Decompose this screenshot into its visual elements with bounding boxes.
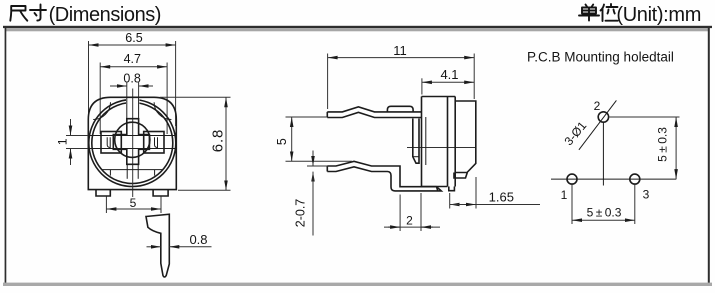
- hub circle: [115, 122, 150, 157]
- dim 6.8 ext lines: [160, 96, 231, 98]
- dim 4.1 ext line: [421, 78, 423, 94]
- right foot: [153, 190, 168, 196]
- dim right line: [675, 117, 677, 179]
- top leg: [327, 107, 421, 118]
- dim 2-0.7 ext lines: [307, 165, 328, 167]
- right wing: [144, 132, 164, 154]
- top leg tab: [387, 106, 413, 112]
- svg-text:3: 3: [643, 188, 650, 202]
- dim 2-0.7 line: [312, 172, 314, 236]
- hole 1: [567, 174, 577, 184]
- dim 5 left ext lines: [286, 116, 328, 118]
- dim 2 ext lines: [399, 195, 401, 232]
- bottom chord tick left: [109, 170, 111, 176]
- center line: [132, 98, 134, 197]
- dim 1.65 ext lines: [449, 193, 451, 209]
- svg-text:5 ± 0.3: 5 ± 0.3: [656, 127, 670, 162]
- rear peg: [449, 187, 455, 191]
- svg-text:2: 2: [406, 214, 413, 228]
- bottom leg: [327, 161, 441, 191]
- dim 1.65 line: [450, 204, 540, 206]
- glyph cun (寸): [30, 5, 46, 21]
- svg-text:6.8: 6.8: [210, 129, 227, 153]
- dim 6.5 line: [89, 44, 176, 46]
- dim 2 arrows: [388, 226, 400, 228]
- neck mask: [126, 98, 139, 119]
- dim 4.7 line: [100, 66, 167, 68]
- dim bottom ext lines: [571, 185, 573, 225]
- inner corner arc right: [154, 102, 171, 119]
- glyph chi (尺): [10, 6, 27, 21]
- hole 3: [630, 174, 640, 184]
- svg-text:2-0.7: 2-0.7: [294, 199, 308, 228]
- dim 5 bottom ext lines: [105, 197, 107, 214]
- left foot: [96, 190, 110, 196]
- frame left line: [5, 28, 7, 283]
- leader line: [579, 100, 617, 149]
- hole 2: [598, 112, 608, 122]
- svg-text:5: 5: [130, 196, 137, 210]
- hole line through 1-3: [551, 178, 676, 180]
- dim 1 ext lines: [66, 135, 88, 137]
- inner line: [425, 117, 427, 165]
- frame bottom gray line: [3, 283, 712, 286]
- svg-text:1.65: 1.65: [489, 190, 514, 205]
- front block: [454, 101, 476, 178]
- dim bottom line: [572, 219, 635, 221]
- dim 5 line: [106, 208, 161, 210]
- left wing hook: [107, 137, 110, 147]
- cross vertical lower extension: [126, 164, 128, 179]
- dim 1 arrows: [70, 119, 72, 136]
- pin detail: [146, 214, 169, 277]
- dim 11 ext lines: [327, 54, 329, 110]
- frame right line: [708, 28, 710, 283]
- cross slot: [113, 119, 149, 165]
- axis line: [407, 147, 477, 149]
- inner corner arc left: [93, 102, 110, 119]
- slot band lines: [88, 135, 176, 137]
- neck side lines: [126, 98, 128, 119]
- glyph wei (位): [601, 4, 618, 21]
- center line vertical: [132, 89, 134, 99]
- pin dim 0.8 arrows: [147, 246, 161, 248]
- dim 1.65 arrows: [450, 204, 476, 206]
- dim 2 line: [384, 226, 440, 228]
- dim 0.8 arrows: [110, 85, 127, 87]
- body outline: [88, 97, 176, 189]
- svg-text:3-Ø1: 3-Ø1: [561, 118, 589, 148]
- bottom chord tick right: [154, 170, 156, 176]
- dim 5 left line: [291, 117, 293, 161]
- middle pin tick: [413, 156, 419, 158]
- glyph dan (单): [579, 5, 599, 21]
- svg-text:4.7: 4.7: [124, 52, 141, 66]
- rotor inner circle: [92, 103, 173, 184]
- cross bar top tick: [127, 118, 139, 120]
- title right: [579, 4, 618, 21]
- svg-text:5: 5: [275, 138, 289, 145]
- svg-text:5 ± 0.3: 5 ± 0.3: [587, 206, 622, 220]
- dim right ext top: [610, 116, 680, 118]
- dim 4.7 ext lines: [99, 63, 101, 135]
- dim 2-0.7 arrows: [312, 151, 314, 167]
- svg-text:(Unit):mm: (Unit):mm: [616, 4, 701, 26]
- hole 2 vertical line: [602, 123, 604, 186]
- svg-text:2: 2: [594, 99, 601, 113]
- svg-text:1: 1: [561, 188, 568, 202]
- svg-text:P.C.B Mounting holedtail: P.C.B Mounting holedtail: [527, 50, 674, 65]
- dim 6.8 line: [225, 97, 227, 190]
- svg-text:0.8: 0.8: [189, 232, 207, 247]
- frame top gray shade: [6, 28, 708, 31]
- frame top dark line: [3, 26, 712, 28]
- main block: [422, 97, 456, 187]
- svg-text:6.5: 6.5: [125, 31, 142, 45]
- right wing hook: [155, 137, 158, 147]
- svg-text:1: 1: [56, 138, 70, 145]
- rotor outer circle: [89, 100, 176, 187]
- dim 11 line: [328, 57, 475, 59]
- dim 4.1 line: [422, 81, 474, 83]
- svg-text:4.1: 4.1: [440, 67, 458, 82]
- title left: [10, 5, 46, 21]
- left wing: [101, 132, 121, 154]
- svg-text:(Dimensions): (Dimensions): [49, 4, 161, 26]
- svg-text:11: 11: [393, 43, 407, 58]
- dim 0.8 ext lines: [126, 82, 128, 98]
- middle pin: [413, 119, 419, 164]
- bottom chord line: [102, 169, 163, 171]
- dim 6.5 ext lines: [88, 41, 90, 126]
